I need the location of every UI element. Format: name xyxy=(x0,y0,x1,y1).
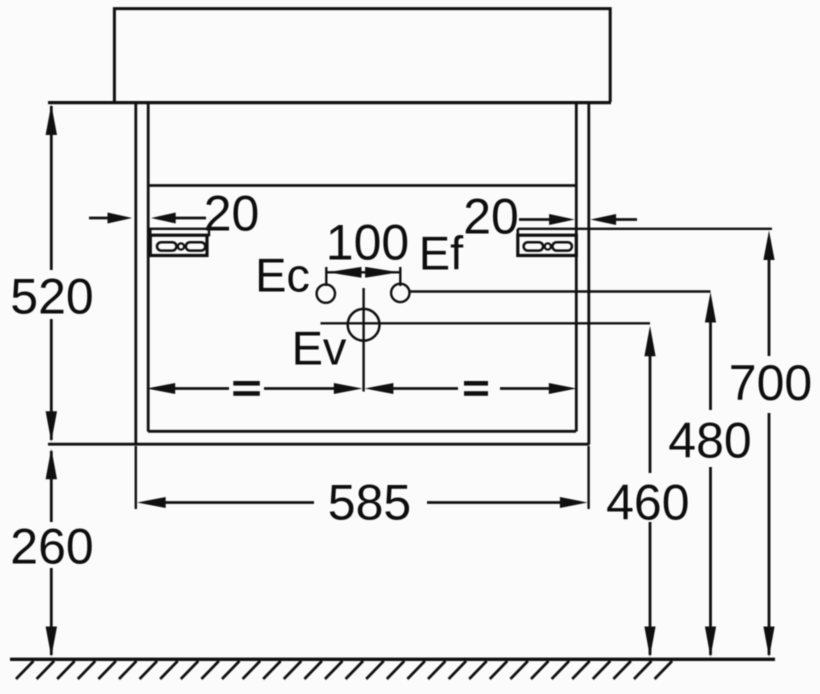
label 460 xyxy=(606,475,689,531)
dimension 520 vertical line xyxy=(46,105,57,442)
right mounting bracket flange xyxy=(518,229,577,235)
left mounting bracket body xyxy=(150,235,207,255)
wire: Ev level line to 460 dimension xyxy=(321,322,651,324)
dimension 20 left: lines and arrows xyxy=(89,213,206,224)
cabinet bottom edge xyxy=(48,443,589,446)
equal-split dimension left segment xyxy=(147,383,363,394)
hole Ec circle xyxy=(317,284,335,302)
countertop / washbasin top xyxy=(114,9,610,102)
svg-text:20: 20 xyxy=(204,186,260,242)
svg-text:520: 520 xyxy=(10,269,93,325)
extension line from bracket level to 700 dimension xyxy=(518,228,772,230)
left mounting bracket flange xyxy=(150,229,209,235)
dimension 460 vertical line xyxy=(644,326,655,657)
dimension 20 right: lines and arrows xyxy=(519,214,637,225)
dimension 585: extension lines xyxy=(136,446,589,509)
Ev vertical centerline xyxy=(362,288,364,392)
label Ev xyxy=(292,322,347,375)
drain Ev circle xyxy=(348,309,380,341)
dimension 585: line and arrows xyxy=(137,497,588,508)
label 585 xyxy=(328,475,411,531)
svg-text:Ef: Ef xyxy=(419,227,464,280)
dimension 700 vertical line xyxy=(763,231,774,658)
right side panel xyxy=(576,102,589,445)
label 520 xyxy=(10,269,93,325)
dimension 260 vertical line xyxy=(46,449,57,657)
label Ef xyxy=(419,227,464,280)
svg-text:585: 585 xyxy=(328,475,411,531)
floor line xyxy=(10,658,775,661)
cabinet interior bottom rail xyxy=(148,430,576,433)
svg-text:700: 700 xyxy=(729,355,812,411)
label 260 xyxy=(10,519,93,575)
wire: line under countertop (wall line) xyxy=(48,101,611,104)
label 20 right xyxy=(463,189,519,245)
svg-text:Ec: Ec xyxy=(255,249,310,302)
label 100 xyxy=(326,215,409,271)
dimension 100 ticks and arrows xyxy=(326,267,400,286)
svg-text:480: 480 xyxy=(668,413,751,469)
label 700 xyxy=(729,355,812,411)
wire: Ef level line to 480 dimension xyxy=(410,290,711,292)
cabinet interior top rail xyxy=(148,184,576,187)
label Ec xyxy=(255,249,310,302)
svg-text:260: 260 xyxy=(10,519,93,575)
svg-text:460: 460 xyxy=(606,475,689,531)
hole Ef circle xyxy=(391,284,409,302)
svg-text:20: 20 xyxy=(463,189,519,245)
floor hatching xyxy=(16,661,672,679)
label 480 xyxy=(668,413,751,469)
svg-text:Ev: Ev xyxy=(292,322,347,375)
equals symbol left xyxy=(233,381,259,396)
svg-text:100: 100 xyxy=(326,215,409,271)
equals symbol right xyxy=(464,381,488,396)
label 20 left xyxy=(204,186,260,242)
dimension 480 vertical line xyxy=(705,292,716,657)
equal-split dimension right segment xyxy=(365,383,577,394)
right mounting bracket body xyxy=(518,235,577,255)
left side panel xyxy=(136,102,148,445)
